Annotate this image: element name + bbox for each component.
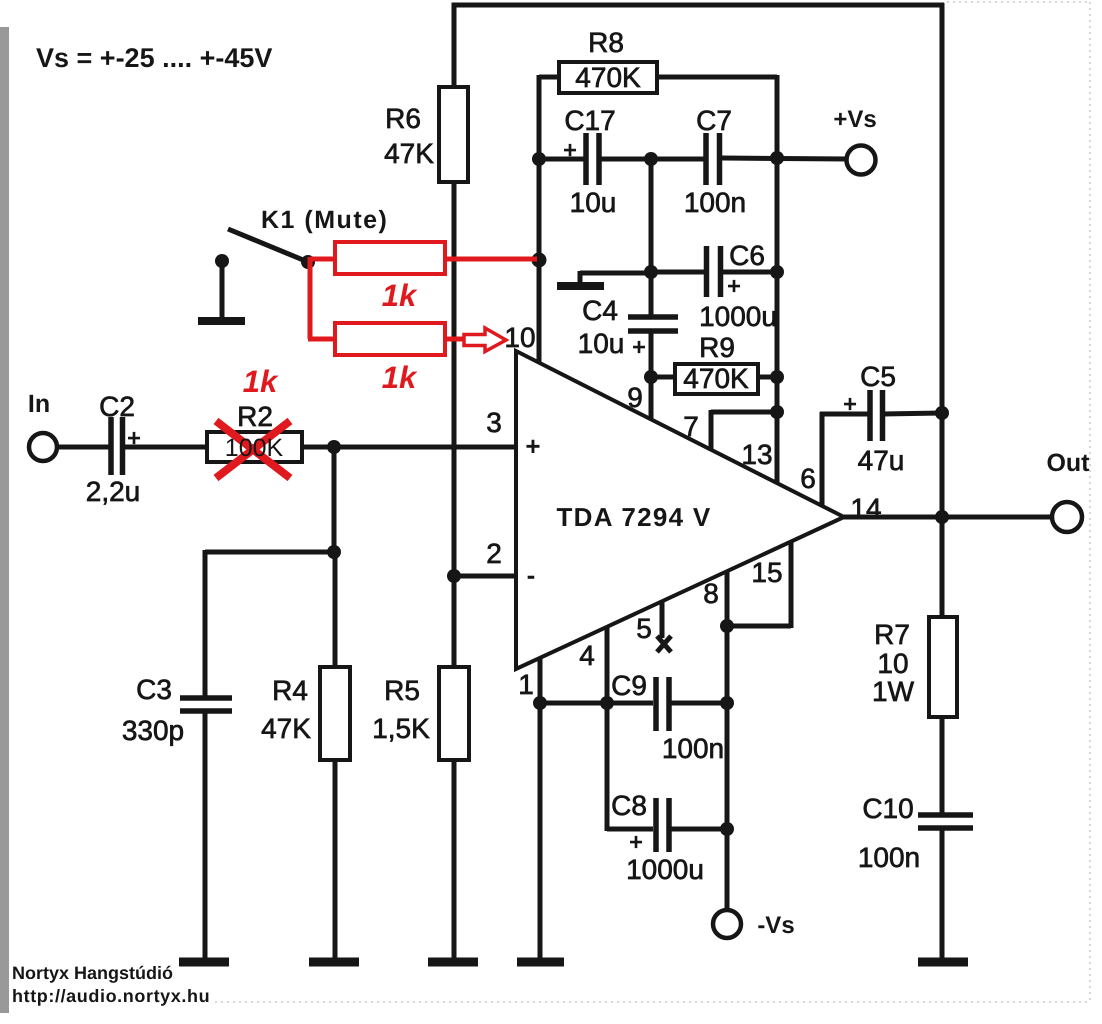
- wire: R7 to C10: [940, 715, 945, 817]
- svg-text:1k: 1k: [243, 364, 279, 399]
- resistor R5 body: [439, 667, 469, 760]
- svg-text:100n: 100n: [662, 733, 724, 764]
- resistor R7 body: [929, 617, 957, 717]
- wire: red Ra to pin10 net: [445, 257, 537, 262]
- svg-text:330p: 330p: [122, 715, 184, 746]
- wire: C5 right: [884, 413, 942, 414]
- svg-text:+: +: [632, 334, 646, 361]
- wire: right bus down to output node: [940, 3, 945, 519]
- svg-text:100n: 100n: [684, 187, 746, 218]
- wire: C6 right: [722, 270, 777, 275]
- svg-text:K1 (Mute): K1 (Mute): [261, 206, 388, 234]
- capacitor C8 plates: [653, 798, 659, 852]
- svg-text:1000u: 1000u: [626, 854, 704, 885]
- svg-text:4: 4: [579, 640, 595, 671]
- capacitor C6 plates: [704, 246, 710, 297]
- wire: red mute link pole to Ra: [310, 257, 336, 262]
- svg-text:9: 9: [627, 382, 643, 413]
- junction pin7/pin13 node: [770, 405, 784, 419]
- svg-text:In: In: [28, 390, 50, 418]
- junction C17 left node: [532, 152, 546, 166]
- resistor R4 body: [320, 667, 350, 760]
- junction K1 pole: [301, 255, 315, 269]
- ground pin1: [517, 958, 564, 967]
- wire: C4 column top: [649, 157, 654, 315]
- junction C9 right node: [720, 696, 734, 710]
- svg-text:+: +: [843, 391, 857, 418]
- wire: pin 4 stub: [605, 626, 610, 705]
- wire: C2 to R2: [124, 445, 209, 450]
- svg-text:R5: R5: [384, 675, 420, 706]
- capacitor C5 plates: [867, 390, 873, 441]
- pin 5 not-connected X mark: [657, 636, 671, 652]
- junction C8 right node: [720, 822, 734, 836]
- svg-text:10: 10: [877, 648, 908, 679]
- scan artifact: faint dotted page border: [215, 2, 1090, 1002]
- capacitor C4 plates: [628, 314, 678, 320]
- svg-text:1W: 1W: [872, 676, 915, 707]
- svg-text:C3: C3: [136, 674, 172, 705]
- wire: pin 5 stub (n.c.): [660, 602, 665, 638]
- wire: C5 left: [820, 412, 868, 417]
- wire: C3 bottom to ground: [203, 711, 208, 959]
- terminal +Vs: [847, 146, 876, 175]
- wire: R4 bottom to ground: [333, 758, 338, 959]
- svg-text:R8: R8: [588, 27, 624, 58]
- wire: R9 left lead: [651, 375, 677, 380]
- wire: R6 bottom to R5 top: [452, 180, 457, 669]
- ground C10: [918, 958, 968, 967]
- junction pin4 node: [600, 696, 614, 710]
- svg-text:+: +: [629, 829, 643, 856]
- wire: pin 10 vertical (R8 left / C17 / mute net): [537, 75, 542, 362]
- wire: C4 ground stub: [580, 271, 651, 276]
- junction K1 fixed contact: [215, 254, 229, 268]
- junction R9 right node: [770, 370, 784, 384]
- svg-text:http://audio.nortyx.hu: http://audio.nortyx.hu: [12, 986, 210, 1006]
- junction output node: [935, 510, 949, 524]
- svg-text:8: 8: [703, 578, 719, 609]
- svg-text:C2: C2: [99, 391, 135, 422]
- svg-text:10u: 10u: [570, 187, 617, 218]
- svg-text:Out: Out: [1046, 449, 1090, 477]
- svg-text:C4: C4: [582, 295, 618, 326]
- K1 switch blade: [228, 229, 308, 262]
- svg-text:C6: C6: [729, 240, 765, 271]
- wire: pin 1 stub down to ground: [538, 658, 543, 959]
- wire: pin 6 stub: [820, 412, 825, 505]
- wire: pin 4 down to C8: [605, 701, 610, 831]
- resistor R6 body: [439, 87, 468, 182]
- capacitor C7 plates: [703, 133, 709, 185]
- svg-text:47K: 47K: [261, 713, 311, 744]
- svg-text:C17: C17: [564, 105, 615, 136]
- capacitor C17 plates: [583, 133, 589, 185]
- svg-text:10: 10: [504, 322, 535, 353]
- svg-text:C9: C9: [611, 670, 647, 701]
- wire: R8 left lead: [539, 75, 561, 80]
- wire: input node down to C3/R4 node: [332, 447, 337, 553]
- wire: R9 right lead: [756, 375, 777, 380]
- ground C3: [179, 958, 229, 967]
- svg-text:1,5K: 1,5K: [372, 713, 430, 744]
- wire: R5 bottom to ground: [452, 758, 457, 959]
- svg-text:R4: R4: [272, 675, 308, 706]
- ground K1: [198, 317, 245, 325]
- svg-text:7: 7: [683, 411, 699, 442]
- svg-text:1: 1: [518, 669, 534, 700]
- svg-text:14: 14: [850, 493, 881, 524]
- svg-text:C8: C8: [611, 790, 647, 821]
- wire: pin 7 branch: [711, 410, 777, 415]
- wire: output node to R7: [940, 517, 945, 619]
- svg-text:470K: 470K: [575, 62, 641, 93]
- svg-text:47u: 47u: [858, 445, 905, 476]
- junction R9 left node: [644, 370, 658, 384]
- svg-text:6: 6: [800, 463, 816, 494]
- svg-text:R2: R2: [237, 401, 273, 432]
- junction C17/C7 node: [644, 152, 658, 166]
- svg-text:1k: 1k: [382, 278, 418, 313]
- junction pin2 feedback node: [447, 569, 461, 583]
- svg-text:+Vs: +Vs: [833, 106, 876, 133]
- resistor R9 body: [675, 364, 758, 394]
- resistor R2 body: [207, 432, 302, 462]
- wire: red vertical to Rb: [308, 257, 313, 339]
- wire: pin1 node to C9 left: [540, 701, 653, 706]
- wire: C10 to ground: [940, 826, 945, 959]
- svg-text:100K: 100K: [225, 434, 284, 462]
- wire: R8 right lead: [655, 75, 777, 80]
- junction pin1 node: [533, 696, 547, 710]
- junction mute net / pin10 node: [532, 253, 547, 268]
- wire: pin 2 to feedback net: [454, 574, 516, 579]
- wire: C17 to C7: [601, 157, 704, 162]
- svg-text:R9: R9: [699, 332, 735, 363]
- svg-text:3: 3: [486, 407, 502, 438]
- wire: R2 to pin 3: [300, 445, 516, 450]
- svg-text:R7: R7: [874, 619, 910, 650]
- wire: red to Rb left: [308, 337, 336, 342]
- junction pin15 node: [720, 619, 734, 633]
- junction C7/+Vs node: [770, 151, 784, 165]
- svg-text:470K: 470K: [683, 363, 749, 394]
- svg-text:C5: C5: [860, 361, 896, 392]
- svg-text:+: +: [727, 273, 741, 300]
- wire: C6 left: [651, 270, 704, 275]
- svg-text:1000u: 1000u: [699, 301, 777, 332]
- red arrow pointing to pin 10: [464, 328, 506, 352]
- svg-text:2: 2: [486, 538, 502, 569]
- resistor R8 body: [559, 62, 657, 93]
- terminal In: [29, 433, 57, 461]
- junction C5 right node: [935, 406, 949, 420]
- scan artifact: left grey band: [0, 27, 9, 1013]
- svg-text:1k: 1k: [382, 360, 418, 395]
- junction C6 right node: [770, 265, 784, 279]
- wire: red Rb to arrow: [445, 337, 466, 342]
- wire: pin 8 line down to -Vs terminal: [725, 571, 730, 911]
- svg-text:15: 15: [751, 557, 782, 588]
- junction C3/R4 node: [327, 545, 341, 559]
- svg-text:-: -: [527, 560, 536, 590]
- wire: R4 top lead: [333, 552, 338, 669]
- ground R4: [309, 958, 359, 967]
- svg-text:Nortyx Hangstúdió: Nortyx Hangstúdió: [12, 963, 173, 983]
- svg-text:R6: R6: [385, 103, 421, 134]
- wire: R6 top lead: [452, 3, 457, 89]
- svg-text:100n: 100n: [858, 842, 920, 873]
- wire: In terminal to C2: [57, 445, 109, 450]
- svg-text:C7: C7: [696, 105, 732, 136]
- red X deletion mark over R2: [216, 421, 290, 478]
- svg-text:47K: 47K: [384, 138, 434, 169]
- svg-text:+: +: [563, 137, 577, 164]
- svg-text:+: +: [127, 425, 141, 452]
- svg-text:TDA 7294 V: TDA 7294 V: [556, 502, 711, 532]
- wire: output to Out terminal: [844, 515, 1053, 520]
- wire: C4 column bottom to pin 9: [649, 333, 654, 419]
- wire: top supply bus: [452, 3, 945, 8]
- junction R2/pin3 node: [327, 440, 341, 454]
- op-amp U1 TDA7294 triangle: [516, 351, 844, 669]
- svg-text:Vs = +-25 .... +-45V: Vs = +-25 .... +-45V: [36, 43, 272, 73]
- capacitor C10 plates: [918, 812, 973, 818]
- wire: C17 left: [537, 157, 584, 162]
- wire: node to C3 branch: [205, 550, 336, 555]
- terminal -Vs: [713, 910, 741, 938]
- svg-text:2,2u: 2,2u: [86, 476, 141, 507]
- wire: C8 right to pin 8 line: [671, 827, 727, 832]
- capacitor C3 plates: [180, 695, 232, 701]
- svg-text:13: 13: [741, 439, 772, 470]
- wire: +Vs branch vertical down to pin 13: [775, 75, 780, 484]
- svg-text:+: +: [525, 431, 540, 461]
- terminal Out: [1052, 502, 1082, 532]
- resistor Ra 1k (mute, red): [335, 242, 445, 274]
- K1 ground stub: [220, 261, 225, 317]
- svg-text:10u: 10u: [578, 328, 625, 359]
- svg-text:C10: C10: [862, 793, 913, 824]
- wire: C9 right to pin 8 line: [671, 701, 727, 706]
- resistor Rb 1k (stand-by, red): [335, 323, 445, 355]
- wire: pin 15 stub: [789, 541, 794, 628]
- svg-text:5: 5: [636, 613, 652, 644]
- wire: C7 to +Vs terminal: [722, 158, 848, 159]
- ground R5: [428, 958, 478, 967]
- ground C4: [557, 282, 604, 290]
- junction C4 top node: [644, 265, 658, 279]
- svg-text:-Vs: -Vs: [757, 912, 794, 939]
- capacitor C9 plates: [653, 677, 659, 731]
- capacitor C2 plates: [108, 417, 114, 475]
